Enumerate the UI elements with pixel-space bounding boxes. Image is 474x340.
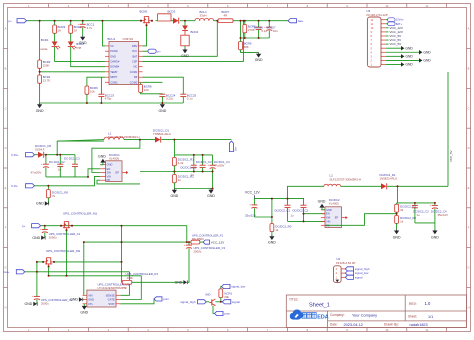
svg-text:E: E — [5, 186, 7, 190]
svg-text:V-IN-: V-IN- — [11, 184, 18, 188]
svg-text:GND: GND — [70, 298, 78, 302]
svg-text:5v+: 5v+ — [234, 146, 238, 151]
svg-text:p+: p+ — [9, 19, 13, 23]
svg-text:1u: 1u — [191, 172, 195, 176]
svg-text:VIN: VIN — [326, 219, 330, 223]
svg-text:GND: GND — [32, 236, 40, 240]
svg-text:4.7u: 4.7u — [87, 26, 93, 30]
svg-text:EN: EN — [326, 212, 330, 216]
svg-text:1K: 1K — [58, 29, 62, 33]
svg-text:58K: 58K — [244, 45, 249, 49]
svg-text:470p: 470p — [105, 97, 112, 101]
svg-text:BCM1: BCM1 — [140, 10, 148, 14]
svg-text:COM2: COM2 — [130, 80, 138, 84]
svg-text:NC: NC — [134, 65, 138, 69]
svg-text:FB: FB — [134, 75, 138, 79]
svg-text:GND: GND — [80, 310, 88, 314]
svg-text:SW: SW — [107, 171, 112, 175]
svg-text:EN: EN — [107, 167, 111, 171]
svg-text:SLF12575T-330M3R2-H: SLF12575T-330M3R2-H — [330, 177, 362, 181]
svg-text:Sheet_1: Sheet_1 — [309, 303, 330, 309]
svg-text:100k: 100k — [127, 276, 134, 280]
svg-text:p+: p+ — [158, 49, 162, 53]
svg-text:2000u: 2000u — [49, 235, 57, 239]
svg-text:GND: GND — [423, 59, 431, 63]
svg-text:GND: GND — [25, 302, 33, 306]
svg-text:13.7K: 13.7K — [43, 78, 51, 82]
svg-text:pum: pum — [224, 312, 230, 316]
svg-text:SS54,F: SS54,F — [35, 147, 45, 151]
svg-text:MPPT: MPPT — [110, 75, 118, 79]
svg-text:C: C — [468, 106, 470, 110]
svg-text:0.22u: 0.22u — [166, 97, 174, 101]
svg-text:1N5822+RLG: 1N5822+RLG — [380, 177, 399, 181]
svg-text:p+: p+ — [22, 224, 26, 228]
svg-text:2000u: 2000u — [194, 249, 202, 253]
svg-text:4.2k: 4.2k — [178, 161, 184, 165]
svg-text:12Vin+: 12Vin+ — [396, 19, 404, 22]
svg-text:Sheet:: Sheet: — [408, 315, 417, 319]
svg-text:GND: GND — [88, 298, 94, 302]
svg-text:CN3722: CN3722 — [123, 37, 134, 41]
svg-text:BCD1: BCD1 — [41, 38, 49, 42]
svg-text:XL4005: XL4005 — [109, 157, 119, 161]
svg-text:signal_low: signal_low — [231, 285, 246, 289]
svg-text:GND: GND — [393, 235, 401, 239]
svg-text:radah1823: radah1823 — [410, 323, 428, 327]
svg-text:VCC: VCC — [132, 49, 138, 53]
svg-text:GND: GND — [110, 54, 116, 58]
svg-text:GND: GND — [423, 50, 431, 54]
svg-text:PGND: PGND — [110, 49, 118, 53]
svg-text:VC: VC — [110, 44, 114, 48]
svg-text:D: D — [468, 146, 470, 150]
svg-text:1/1: 1/1 — [428, 315, 433, 319]
svg-text:25u/12V: 25u/12V — [438, 213, 449, 217]
svg-text:220K: 220K — [43, 63, 50, 67]
svg-text:Company:: Company: — [330, 313, 345, 317]
svg-text:BAT: BAT — [132, 54, 137, 58]
svg-text:4R: 4R — [224, 13, 228, 17]
svg-text:A: A — [5, 27, 7, 31]
svg-text:D: D — [5, 146, 7, 150]
svg-text:H: H — [468, 305, 470, 309]
svg-text:1k: 1k — [178, 178, 182, 182]
svg-text:C: C — [5, 106, 7, 110]
svg-text:DC/DC2_C2: DC/DC2_C2 — [293, 208, 309, 212]
svg-text:EDA: EDA — [317, 315, 328, 321]
svg-text:G: G — [4, 266, 6, 270]
svg-text:TN5822+RLG: TN5822+RLG — [153, 132, 172, 136]
svg-text:GND: GND — [255, 58, 263, 62]
svg-text:signal: signal — [232, 300, 240, 304]
svg-text:3k: 3k — [400, 208, 404, 212]
svg-text:GND: GND — [159, 109, 167, 113]
svg-text:DONE#: DONE# — [110, 65, 119, 69]
svg-text:VCC_5V: VCC_5V — [390, 42, 402, 46]
svg-text:B: B — [5, 67, 7, 71]
svg-text:KF128-2.54 3P: KF128-2.54 3P — [336, 261, 356, 265]
svg-text:FB: FB — [107, 178, 111, 182]
svg-text:EP: EP — [335, 216, 339, 220]
svg-text:1k: 1k — [275, 228, 279, 232]
svg-text:GND: GND — [181, 54, 189, 58]
svg-text:DC/DC2_C1: DC/DC2_C1 — [275, 208, 291, 212]
svg-text:EP: EP — [116, 171, 120, 175]
svg-text:GND: GND — [405, 46, 413, 50]
svg-text:bat+: bat+ — [298, 19, 304, 23]
svg-text:E: E — [468, 186, 470, 190]
svg-text:V-IN+: V-IN+ — [11, 153, 19, 157]
svg-text:REV:: REV: — [409, 302, 417, 306]
svg-text:GND: GND — [36, 202, 44, 206]
svg-text:XL4005: XL4005 — [329, 202, 339, 206]
svg-text:TITLE:: TITLE: — [289, 297, 299, 301]
svg-text:CTL: CTL — [88, 302, 94, 306]
svg-text:2023-04-12: 2023-04-12 — [344, 323, 363, 327]
svg-text:signal_high: signal_high — [180, 300, 196, 304]
svg-text:MF-R500: MF-R500 — [192, 237, 204, 241]
svg-text:1u: 1u — [417, 213, 421, 217]
svg-text:GND: GND — [405, 55, 413, 59]
svg-text:GND: GND — [326, 208, 332, 212]
svg-text:DC-DC1_C2: DC-DC1_C2 — [49, 160, 65, 164]
svg-text:47u/50V: 47u/50V — [31, 171, 42, 175]
svg-text:1.0: 1.0 — [425, 301, 431, 306]
svg-text:GND: GND — [405, 63, 413, 67]
svg-text:COM1: COM1 — [130, 70, 138, 74]
svg-text:A: A — [468, 27, 470, 31]
svg-text:GND: GND — [36, 109, 44, 113]
svg-text:2000u: 2000u — [41, 302, 49, 306]
svg-text:B: B — [468, 67, 470, 71]
svg-text:bat+: bat+ — [4, 270, 10, 274]
svg-text:KF128-2.54-12P: KF128-2.54-12P — [367, 13, 388, 17]
svg-text:GND: GND — [207, 194, 215, 198]
svg-text:GND: GND — [431, 235, 439, 239]
svg-text:1u: 1u — [58, 168, 62, 172]
svg-text:GND: GND — [171, 194, 179, 198]
svg-text:DC/DC2_C3: DC/DC2_C3 — [413, 209, 429, 213]
svg-text:UPS_CONTROLLER_M2: UPS_CONTROLLER_M2 — [46, 249, 81, 253]
svg-text:10u: 10u — [273, 29, 278, 33]
svg-text:0.1u: 0.1u — [262, 29, 268, 33]
svg-text:H: H — [5, 305, 7, 309]
svg-text:GATE: GATE — [108, 298, 115, 302]
svg-text:BCD3: BCD3 — [168, 10, 176, 14]
svg-text:VCC_12V: VCC_12V — [245, 191, 260, 195]
svg-text:1k: 1k — [400, 219, 404, 223]
svg-text:VIN: VIN — [88, 293, 93, 297]
svg-text:DC-DC1_C3: DC-DC1_C3 — [64, 157, 80, 161]
svg-text:33uH: 33uH — [200, 13, 207, 17]
svg-text:VCC_12V: VCC_12V — [211, 240, 224, 244]
svg-text:1u: 1u — [291, 214, 295, 218]
svg-text:VCC_5V: VCC_5V — [449, 150, 453, 162]
svg-text:verde: verde — [40, 47, 48, 51]
svg-text:signal: signal — [355, 275, 363, 279]
svg-text:GND: GND — [268, 241, 276, 245]
svg-text:10k: 10k — [90, 89, 95, 93]
svg-text:SENSE: SENSE — [106, 293, 115, 297]
svg-text:roja: roja — [76, 45, 81, 49]
svg-text:DRV: DRV — [132, 44, 138, 48]
svg-text:BCD4: BCD4 — [191, 30, 199, 34]
svg-text:GND: GND — [79, 41, 87, 45]
svg-text:DC/DC1_C3: DC/DC1_C3 — [196, 160, 212, 164]
svg-text:CHRG#: CHRG# — [110, 59, 120, 63]
svg-text:GND: GND — [175, 281, 183, 285]
svg-text:120: 120 — [144, 88, 149, 92]
svg-text:47u/50V: 47u/50V — [214, 164, 225, 168]
svg-text:Drawn By:: Drawn By: — [384, 323, 399, 327]
svg-text:20k: 20k — [224, 295, 229, 299]
svg-text:LTC4412ES6#TRMPBF: LTC4412ES6#TRMPBF — [98, 286, 128, 290]
svg-text:GND: GND — [107, 163, 113, 167]
svg-text:pum: pum — [163, 297, 169, 301]
svg-text:25u/12V: 25u/12V — [245, 214, 256, 218]
svg-text:GND: GND — [98, 154, 106, 158]
svg-text:STAT: STAT — [108, 302, 115, 306]
svg-text:Your Company: Your Company — [352, 313, 377, 317]
svg-text:UPS_CONTROLLER_M1: UPS_CONTROLLER_M1 — [63, 211, 98, 215]
svg-text:1K: 1K — [74, 29, 78, 33]
svg-text:TEMP: TEMP — [110, 70, 117, 74]
svg-text:BCU1: BCU1 — [108, 37, 116, 41]
svg-text:G: G — [467, 266, 469, 270]
svg-text:0.1u: 0.1u — [187, 97, 193, 101]
svg-text:COM1: COM1 — [110, 80, 118, 84]
svg-text:GND: GND — [318, 199, 326, 203]
svg-text:DC/DC1_C1: DC/DC1_C1 — [181, 166, 197, 170]
svg-text:SW: SW — [326, 216, 331, 220]
svg-text:CSP: CSP — [132, 59, 138, 63]
svg-text:Date:: Date: — [330, 323, 338, 327]
svg-text:IND: IND — [206, 293, 211, 297]
svg-text:VIN: VIN — [107, 174, 111, 178]
